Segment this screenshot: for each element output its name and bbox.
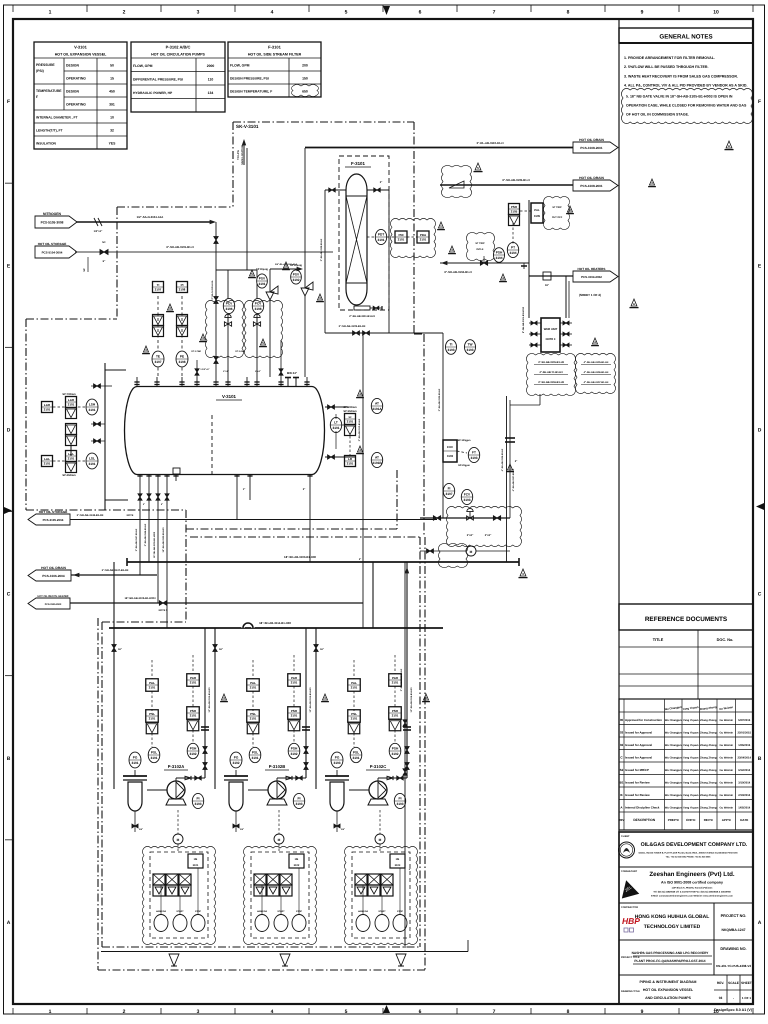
svg-text:P-3102A: P-3102A — [168, 764, 185, 769]
svg-text:3101: 3101 — [291, 680, 298, 684]
svg-text:1/2"-SA-N-3104-A1A: 1/2"-SA-N-3104-A1A — [137, 215, 164, 219]
svg-text:110: 110 — [208, 77, 214, 81]
svg-text:PCS-3108-2001: PCS-3108-2001 — [580, 146, 602, 150]
svg-text:10: 10 — [713, 10, 719, 16]
riser components C — [403, 726, 411, 728]
svg-text:3/4": 3/4" — [240, 828, 244, 831]
svg-text:DESIGN: DESIGN — [66, 90, 80, 94]
svg-text:PAL: PAL — [534, 208, 540, 212]
pressure switch PSH square — [509, 204, 520, 215]
pump B discharge riser — [305, 628, 307, 778]
svg-text:2"-SH-AB-3146-B1-H3: 2"-SH-AB-3146-B1-H3 — [144, 523, 147, 546]
svg-text:PAL: PAL — [149, 681, 155, 685]
shutdown relay square — [531, 203, 543, 223]
pump B discharge with check valve — [276, 778, 278, 781]
svg-text:V-3101: V-3101 — [222, 394, 236, 399]
svg-text:3102: 3102 — [189, 752, 196, 756]
svg-text:FI: FI — [448, 487, 451, 491]
svg-text:A: A — [7, 920, 11, 926]
motor M circle C — [375, 834, 385, 844]
pump B circle — [268, 781, 286, 799]
svg-text:HOT OIL DRAIN: HOT OIL DRAIN — [579, 138, 604, 142]
battery limit marks — [521, 265, 527, 267]
svg-text:PSL: PSL — [149, 712, 155, 716]
svg-text:Issued for Approval: Issued for Approval — [625, 730, 652, 734]
svg-text:FLOW, GPM: FLOW, GPM — [133, 64, 153, 68]
svg-text:3102: 3102 — [232, 761, 239, 765]
hot oil drain export flag — [28, 570, 71, 581]
pump skid boundary inner — [101, 622, 103, 947]
line down from bypass area — [442, 352, 444, 518]
svg-text:SP:600mm: SP:600mm — [343, 406, 357, 409]
svg-text:FFIC: FFIC — [447, 445, 453, 449]
title block client section OGDC — [619, 832, 753, 1004]
svg-text:18"-SH-AB-3105-B1-H003: 18"-SH-AB-3105-B1-H003 — [124, 597, 156, 600]
svg-text:3: 3 — [197, 10, 200, 16]
analyzer AT-3101A — [371, 398, 382, 413]
pump A discharge riser — [204, 628, 206, 778]
strainer C — [325, 775, 349, 777]
svg-text:6: 6 — [419, 10, 422, 16]
svg-text:Approved for Construction: Approved for Construction — [625, 718, 662, 722]
pump train A suction drop — [113, 628, 115, 789]
svg-text:3101B: 3101B — [372, 461, 382, 465]
svg-text:LAH: LAH — [44, 403, 50, 407]
svg-text:ST TRIP: ST TRIP — [475, 242, 485, 245]
pump C discharge riser — [406, 628, 408, 778]
svg-text:3. WASTE HEAT RECOVERY IS FRO: 3. WASTE HEAT RECOVERY IS FROM SALES GAS… — [624, 74, 738, 78]
svg-text:18"-SH-AB-3103-B1-H30: 18"-SH-AB-3103-B1-H30 — [284, 555, 316, 559]
svg-text:Zeeshan Engineers (Pvt) Ltd.: Zeeshan Engineers (Pvt) Ltd. — [649, 871, 735, 878]
svg-text:SK-V-3101: SK-V-3101 — [236, 124, 259, 129]
svg-text:3103: 3103 — [395, 864, 401, 867]
svg-text:PSH: PSH — [392, 709, 398, 713]
svg-text:4"-SH-AB-3107-B1-H3: 4"-SH-AB-3107-B1-H3 — [584, 381, 609, 384]
orifice flange on riser — [505, 437, 515, 439]
revision cloud ST TRIP INTLK — [466, 232, 494, 260]
revision cloud with slope symbol on drain line — [441, 165, 471, 197]
svg-text:NOTE: NOTE — [127, 514, 134, 517]
svg-text:2/10/2014: 2/10/2014 — [738, 794, 750, 797]
svg-text:PIPING & INSTRUMENT DIAGRAM: PIPING & INSTRUMENT DIAGRAM — [640, 980, 697, 984]
svg-text:PLANT PROC-FC-QA/NASHPA/PROJ-G: PLANT PROC-FC-QA/NASHPA/PROJ-GST-2014 — [634, 959, 705, 963]
svg-text:450: 450 — [109, 90, 115, 94]
svg-text:12"-SH-AB-3116-B1-H30: 12"-SH-AB-3116-B1-H30 — [410, 687, 413, 713]
svg-text:3107: 3107 — [155, 287, 162, 291]
level interlock stack — [66, 424, 77, 435]
svg-text:PSH: PSH — [190, 709, 196, 713]
svg-text:SAFE LOCATION: SAFE LOCATION — [241, 145, 244, 165]
svg-text:2"-SH-AB-3109-B1-H3: 2"-SH-AB-3109-B1-H3 — [438, 388, 441, 411]
svg-text:1/26/2015: 1/26/2015 — [738, 744, 750, 747]
svg-text:SP 30psig: SP 30psig — [256, 268, 268, 271]
svg-text:DESIGN: DESIGN — [66, 64, 80, 68]
svg-text:3107: 3107 — [445, 492, 452, 496]
panel signal drops A — [160, 885, 162, 915]
svg-text:F-3101: F-3101 — [268, 45, 281, 50]
table P-3102 hot oil circulation pumps data — [131, 42, 225, 112]
signal line above PAH column B — [293, 655, 295, 674]
svg-text:DATE: DATE — [740, 818, 748, 822]
svg-text:B: B — [7, 756, 11, 762]
pressure alarm column PAH C — [389, 674, 402, 687]
fill line spec break — [87, 257, 89, 272]
interlock square row A — [153, 874, 165, 885]
strainer A — [123, 775, 147, 777]
svg-text:00: 00 — [620, 718, 624, 722]
svg-text:3102: 3102 — [391, 752, 398, 756]
note triangle near drain — [520, 569, 526, 576]
note triangle near top right corner — [726, 141, 732, 148]
pressure gauge PG above strainer A — [129, 752, 141, 768]
svg-text:18": 18" — [219, 648, 223, 651]
strainer A drain valve — [134, 811, 136, 832]
svg-text:OIL&GAS DEVELOPMENT COMPANY LT: OIL&GAS DEVELOPMENT COMPANY LTD. — [641, 842, 748, 848]
PSV-3102 relief valve — [304, 296, 306, 377]
svg-text:P-3102 A/B/C: P-3102 A/B/C — [166, 45, 191, 50]
svg-text:3108: 3108 — [179, 287, 186, 291]
VSD square C — [390, 854, 405, 868]
svg-text:3108: 3108 — [254, 307, 261, 311]
svg-text:22/01/2015: 22/01/2015 — [738, 731, 752, 734]
PSV-3101 relief valve — [269, 300, 271, 377]
svg-text:Wu Changjun: Wu Changjun — [665, 731, 682, 734]
svg-text:PCV: PCV — [255, 302, 262, 306]
top center pointer — [383, 6, 390, 15]
svg-text:Issued for Review: Issued for Review — [625, 780, 650, 784]
svg-text:3"x2": 3"x2" — [467, 534, 474, 537]
svg-text:Wu Changjun: Wu Changjun — [665, 756, 682, 759]
svg-text:23/04/2014: 23/04/2014 — [738, 756, 752, 759]
control panel dashed box B — [251, 852, 309, 938]
svg-text:START: START — [378, 910, 386, 913]
note triangle on drain line — [475, 163, 481, 170]
control panel cloud C — [344, 846, 417, 944]
svg-text:2"x1": 2"x1" — [255, 370, 261, 373]
svg-text:Issued for Review: Issued for Review — [625, 793, 650, 797]
svg-text:F: F — [7, 99, 10, 105]
level interlock LAL square with triangle — [66, 451, 77, 462]
flow valve FCV circle — [461, 489, 472, 504]
svg-text:HS: HS — [295, 858, 299, 861]
svg-text:Gu Weimin: Gu Weimin — [720, 806, 734, 809]
svg-text:FCV: FCV — [464, 493, 471, 497]
svg-text:PAH: PAH — [291, 676, 297, 680]
filter outlet drop — [388, 190, 390, 333]
svg-text:AND CIRCULATION PUMPS: AND CIRCULATION PUMPS — [645, 996, 691, 1000]
svg-text:4: 4 — [271, 10, 274, 16]
svg-text:Internal Discipline Check: Internal Discipline Check — [625, 805, 660, 809]
svg-text:CONSULTANT: CONSULTANT — [621, 870, 638, 873]
svg-text:S2: S2 — [620, 768, 624, 772]
svg-text:Yang Yiquan: Yang Yiquan — [683, 719, 699, 722]
svg-text:3101: 3101 — [351, 685, 358, 689]
svg-text:TI: TI — [450, 343, 453, 347]
svg-text:PSH: PSH — [291, 709, 297, 713]
hot oil drain flag lower right — [573, 180, 618, 191]
filter drain — [354, 306, 370, 310]
svg-text:3105: 3105 — [511, 209, 518, 213]
level indicator LI square stack — [345, 414, 356, 425]
svg-text:REV'D: REV'D — [704, 818, 714, 822]
svg-text:650: 650 — [302, 89, 308, 93]
svg-text:PREP'D: PREP'D — [668, 818, 680, 822]
svg-text:INSULATION: INSULATION — [36, 142, 57, 146]
svg-text:8: 8 — [567, 10, 570, 16]
svg-text:OPERATION CASE, WHILE CLOSED F: OPERATION CASE, WHILE CLOSED FOR REMOVIN… — [626, 104, 747, 108]
line from bypass down to pumps area — [362, 333, 364, 628]
VSD square A — [188, 854, 203, 868]
pressure alarm column PAL B — [247, 679, 260, 692]
VSD square B — [289, 854, 304, 868]
svg-text:LSL: LSL — [89, 457, 95, 461]
svg-text:Wu Changjun: Wu Changjun — [665, 719, 682, 722]
svg-text:3101: 3101 — [68, 402, 75, 406]
svg-text:3103: 3103 — [463, 498, 470, 502]
svg-text:3101: 3101 — [251, 756, 258, 760]
nitrogen flag — [35, 216, 77, 228]
OGDC circular logo — [619, 842, 635, 858]
svg-text:(PSI): (PSI) — [36, 69, 44, 73]
bottom ruler ticks and numbers — [12, 1008, 14, 1014]
svg-text:3101: 3101 — [250, 716, 257, 720]
svg-text:PG: PG — [335, 756, 340, 760]
svg-text:4"-SH-AB-3106-B1-H3: 4"-SH-AB-3106-B1-H3 — [501, 448, 504, 471]
svg-text:LSH: LSH — [89, 403, 96, 407]
svg-text:3105: 3105 — [534, 214, 541, 218]
svg-text:3102: 3102 — [294, 864, 300, 867]
svg-text:Gu Weimin: Gu Weimin — [720, 744, 734, 747]
svg-text:6"-SH-AB-3105-B1-H: 6"-SH-AB-3105-B1-H — [502, 178, 529, 182]
svg-text:3103: 3103 — [333, 761, 340, 765]
PCV header — [216, 269, 257, 271]
riser from WHR clouds — [539, 394, 541, 405]
skid boundary dash-dot top run — [233, 121, 414, 123]
svg-text:D: D — [758, 427, 762, 433]
svg-text:134: 134 — [208, 91, 214, 95]
circulation return header — [420, 517, 510, 519]
svg-text:D: D — [7, 427, 11, 433]
temperature instruments on circulation line — [445, 340, 456, 355]
svg-text:AT: AT — [375, 456, 379, 460]
svg-text:2"-SH-AB-3108-B1-H3: 2"-SH-AB-3108-B1-H3 — [320, 238, 323, 261]
to safe location arrow — [243, 142, 245, 165]
export line — [70, 519, 437, 521]
pressure switch PSL circle B — [249, 747, 261, 762]
svg-text:Zhang Zhong: Zhang Zhong — [700, 769, 717, 772]
svg-text:PSL: PSL — [252, 751, 258, 755]
svg-text:3103: 3103 — [470, 456, 477, 460]
drop valves — [138, 494, 142, 500]
note triangles right of vessel — [357, 390, 362, 396]
svg-text:6: 6 — [419, 1009, 422, 1015]
svg-text:PCS-4108-2001: PCS-4108-2001 — [580, 184, 602, 188]
instrument chain PI-3108 above vessel — [181, 296, 183, 377]
svg-text:4. ALL P&, CONTROL V/V & ALL: 4. ALL P&, CONTROL V/V & ALL PID PROVIDE… — [624, 84, 747, 88]
svg-text:TEMPERATURE: TEMPERATURE — [36, 89, 62, 93]
svg-text:2"-SH-AB-3111-B1-H3: 2"-SH-AB-3111-B1-H3 — [349, 315, 375, 318]
note triangle at riser B — [322, 694, 327, 700]
hot oil heaters supply flag — [573, 271, 618, 282]
svg-text:3101: 3101 — [149, 685, 156, 689]
svg-text:1: 1 — [49, 10, 52, 16]
svg-text:12"-SH-AB-3115-B1-H30: 12"-SH-AB-3115-B1-H30 — [309, 687, 312, 713]
svg-text:3101: 3101 — [392, 680, 399, 684]
svg-text:3101: 3101 — [44, 407, 51, 411]
pressure alarm column PAL C — [348, 679, 361, 692]
svg-text:PSH: PSH — [190, 747, 197, 751]
svg-text:5: 5 — [345, 10, 348, 16]
svg-text:SP:700mm: SP:700mm — [62, 393, 76, 396]
svg-text:PG: PG — [133, 756, 138, 760]
filter F-3101 column — [346, 174, 367, 305]
svg-text:HONG KONG HUIHUA GLOBAL: HONG KONG HUIHUA GLOBAL — [635, 914, 710, 920]
svg-text:4"-SH-AB-3106-B1-H3: 4"-SH-AB-3106-B1-H3 — [538, 381, 564, 384]
svg-text:3106: 3106 — [225, 307, 232, 311]
svg-text:8: 8 — [567, 1009, 570, 1015]
pump B suction pipe — [248, 789, 268, 791]
panel signal drops B — [261, 885, 263, 915]
note triangle below heaters flag — [649, 179, 654, 185]
svg-text:LAH: LAH — [68, 398, 74, 402]
svg-text:2"-SH-AB-3110-B1-H3: 2"-SH-AB-3110-B1-H3 — [358, 418, 361, 441]
svg-text:3103: 3103 — [194, 802, 201, 806]
svg-text:SCALE: SCALE — [728, 981, 739, 985]
note triangle near trip cloud — [567, 206, 572, 212]
pressure switch PSH circle A — [187, 743, 199, 758]
svg-text:PSV: PSV — [259, 277, 266, 281]
bridle isolation valves — [94, 384, 101, 388]
pump A discharge with check valve — [175, 778, 177, 781]
svg-text:TECHNOLOGY LIMITED: TECHNOLOGY LIMITED — [644, 924, 701, 930]
svg-text:PI: PI — [196, 797, 199, 801]
svg-text:5: 5 — [345, 1009, 348, 1015]
right nozzle lower with valve — [325, 456, 355, 458]
svg-text:2"x3": 2"x3" — [485, 534, 492, 537]
svg-text:Gu Weimin: Gu Weimin — [720, 781, 734, 784]
fill line gate valve — [100, 250, 108, 255]
svg-text:LT: LT — [334, 421, 338, 425]
svg-text:PROJECT NO.: PROJECT NO. — [721, 914, 747, 918]
pump train C suction drop — [315, 628, 317, 789]
svg-text:PSL: PSL — [151, 751, 157, 755]
level recorder LR square — [345, 456, 356, 467]
pressure alarm column PAH A — [187, 674, 200, 687]
Zeeshan triangular logo — [618, 878, 639, 898]
revision cloud line numbers left — [526, 353, 575, 395]
svg-text:C: C — [758, 592, 762, 598]
svg-text:4"-SH-AB-3105-B1-H3: 4"-SH-AB-3105-B1-H3 — [584, 361, 609, 364]
level interlock square with triangle — [66, 397, 77, 408]
svg-text:NOTE 3: NOTE 3 — [546, 338, 556, 341]
svg-text:PAL: PAL — [250, 681, 256, 685]
svg-text:2000: 2000 — [207, 64, 215, 68]
svg-text:9: 9 — [641, 1009, 644, 1015]
analyzer AT-3101B — [371, 452, 382, 467]
svg-text:3101: 3101 — [347, 461, 354, 465]
svg-text:18"-SH-AB-3103-B1-H30: 18"-SH-AB-3103-B1-H30 — [162, 527, 165, 553]
svg-text:PI: PI — [181, 283, 184, 287]
vessel bottom nozzles — [137, 475, 142, 477]
svg-text:HOT OIL DRAIN: HOT OIL DRAIN — [579, 176, 604, 180]
svg-text:PI: PI — [297, 797, 300, 801]
svg-text:START: START — [277, 910, 285, 913]
top ruler ticks and numbers — [12, 5, 14, 12]
interlock square row C — [355, 874, 367, 885]
svg-text:REV.: REV. — [717, 981, 724, 985]
svg-text:Issued for MR/CP: Issued for MR/CP — [625, 768, 649, 772]
svg-text:6/12/2014: 6/12/2014 — [738, 769, 750, 772]
svg-text:5/27/2015: 5/27/2015 — [738, 719, 750, 722]
vessel V-3101 shell — [125, 387, 325, 475]
waste heat recovery unit box — [541, 318, 560, 352]
svg-text:4"-SH-AB-3105-B1-H3: 4"-SH-AB-3105-B1-H3 — [538, 361, 564, 364]
svg-text:03: 03 — [620, 730, 624, 734]
svg-text:2"-SH-AB-3109-B1-H3: 2"-SH-AB-3109-B1-H3 — [339, 325, 366, 328]
svg-text:3103: 3103 — [447, 348, 454, 352]
svg-text:Gu Weimin: Gu Weimin — [720, 794, 734, 797]
svg-text:18": 18" — [320, 648, 324, 651]
svg-text:Gu Weimin: Gu Weimin — [720, 731, 734, 734]
svg-text:PAH: PAH — [190, 676, 196, 680]
signal line above PAL column A — [151, 660, 153, 679]
svg-text:6"-SH-AB-3104-B1-H: 6"-SH-AB-3104-B1-H — [444, 270, 471, 274]
svg-text:CHK'D: CHK'D — [686, 818, 696, 822]
svg-text:3101: 3101 — [392, 713, 399, 717]
svg-text:18"-SH-AB-3114-B1-H30: 18"-SH-AB-3114-B1-H30 — [259, 621, 291, 625]
svg-text:15: 15 — [110, 77, 114, 81]
cloud at min flow — [438, 543, 467, 567]
pump C discharge with check valve — [377, 778, 379, 781]
svg-text:Wu Changjun: Wu Changjun — [665, 781, 682, 784]
svg-text:LAL: LAL — [68, 452, 74, 456]
svg-text:APP'D: APP'D — [722, 818, 732, 822]
svg-text:An ISO 9001-2008 certified com: An ISO 9001-2008 certified company — [661, 881, 723, 885]
svg-text:PSH: PSH — [496, 251, 503, 255]
svg-text:SP:350mm: SP:350mm — [343, 410, 357, 413]
svg-text:DesignSpec 8.0 A1 (V): DesignSpec 8.0 A1 (V) — [714, 1008, 753, 1012]
revision cloud around 650 value — [291, 84, 318, 96]
svg-text:AT: AT — [375, 402, 379, 406]
level alarm LAH-3101 square — [42, 402, 53, 413]
relief header risers — [269, 269, 271, 292]
svg-text:PAH: PAH — [392, 676, 398, 680]
svg-text:SP:450mm: SP:450mm — [62, 474, 76, 477]
general note 5 with revision cloud — [621, 88, 752, 123]
svg-text:18": 18" — [118, 648, 122, 651]
svg-text:1 1/2"x1": 1 1/2"x1" — [200, 368, 209, 371]
svg-text:PCS-3105-2003: PCS-3105-2003 — [45, 603, 62, 606]
svg-text:HS: HS — [396, 858, 400, 861]
svg-text:F: F — [758, 99, 761, 105]
svg-text:3: 3 — [197, 1009, 200, 1015]
WHR right riser — [565, 276, 567, 318]
right pointer — [756, 503, 764, 510]
svg-text:4: 4 — [271, 1009, 274, 1015]
filter inlet valve — [325, 189, 346, 191]
interlock square row B — [254, 874, 266, 885]
filter differential pressure transmitter PDT-3101 — [375, 229, 386, 244]
svg-text:INTLK: INTLK — [476, 248, 483, 251]
relief lateral to riser — [270, 268, 301, 270]
svg-text:3101: 3101 — [420, 237, 427, 241]
svg-text:TE: TE — [156, 355, 160, 359]
drop from bypass right end — [442, 333, 444, 352]
svg-text:PSH: PSH — [392, 747, 399, 751]
filter element X pattern — [346, 195, 367, 197]
svg-text:12"-SH-AB-3114-B1-H30: 12"-SH-AB-3114-B1-H30 — [208, 687, 211, 713]
svg-text:A: A — [758, 920, 762, 926]
